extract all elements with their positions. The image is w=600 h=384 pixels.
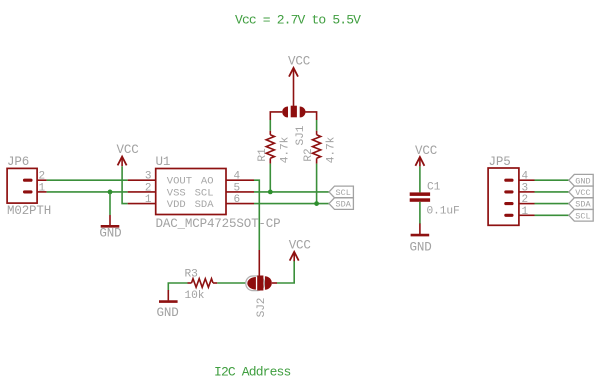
net label SDA (JP5) — [569, 198, 593, 210]
svg-text:VCC: VCC — [288, 55, 310, 69]
svg-text:SCL: SCL — [575, 211, 590, 221]
svg-text:3: 3 — [145, 171, 152, 183]
wire JP5 pin4 to GND flag — [535, 179, 569, 181]
resistor R3 10k — [185, 269, 218, 303]
svg-text:5: 5 — [234, 182, 241, 194]
svg-text:GND: GND — [99, 227, 121, 241]
svg-text:4.7k: 4.7k — [326, 136, 338, 163]
wire R2 bottom to SDA net — [316, 164, 318, 204]
svg-text:2: 2 — [145, 182, 152, 194]
wire U1 pin6 to SDA flag — [254, 203, 329, 205]
svg-text:GND: GND — [410, 241, 432, 255]
wire SJ1 left to R1 — [270, 112, 282, 135]
junction R2/SDA — [314, 201, 319, 206]
svg-text:VCC: VCC — [117, 143, 139, 157]
net label VCC (JP5) — [569, 186, 593, 198]
svg-text:JP6: JP6 — [7, 155, 29, 169]
svg-text:Vcc = 2.7V to 5.5V: Vcc = 2.7V to 5.5V — [235, 13, 361, 28]
wire VCC to C1 top — [419, 166, 421, 192]
ground symbol GND (R3) — [157, 302, 179, 320]
svg-text:10k: 10k — [185, 290, 205, 302]
net label SCL (JP5) — [569, 210, 593, 222]
svg-text:R2: R2 — [303, 148, 315, 161]
svg-text:AO: AO — [201, 176, 214, 188]
solder jumper SJ2 — [246, 276, 272, 318]
svg-text:4: 4 — [234, 171, 241, 183]
svg-text:1: 1 — [522, 206, 529, 218]
supply symbol VCC (above C1) — [415, 144, 437, 166]
capacitor C1 0.1uF — [410, 182, 460, 218]
wire JP6 pin2 to U1 pin3 — [47, 179, 128, 181]
svg-text:VCC: VCC — [289, 239, 311, 253]
ground symbol GND (C1) — [410, 235, 432, 254]
wire SJ1 right to R2 — [306, 112, 317, 135]
wire junction down to ground — [109, 192, 111, 215]
svg-text:VSS: VSS — [167, 187, 186, 199]
wire U1 pin5 to SCL flag — [254, 191, 329, 193]
svg-text:0.1uF: 0.1uF — [427, 206, 460, 218]
solder jumper SJ1 — [282, 106, 307, 146]
supply symbol VCC (right of SJ2) — [289, 239, 311, 262]
svg-text:R3: R3 — [185, 269, 198, 281]
svg-text:I2C Address: I2C Address — [214, 365, 291, 380]
svg-text:2: 2 — [39, 171, 46, 183]
svg-text:VCC: VCC — [415, 144, 437, 158]
wire U1 pin4 (A0) down to SJ2 — [254, 180, 259, 275]
svg-text:6: 6 — [234, 194, 241, 206]
net label SCL — [329, 186, 353, 198]
svg-text:SDA: SDA — [195, 199, 215, 211]
svg-text:GND: GND — [157, 306, 179, 320]
wire JP5 pin2 to SDA flag — [535, 203, 569, 205]
wire C1 bottom to GND — [419, 202, 421, 224]
svg-text:C1: C1 — [427, 182, 441, 194]
net label SDA — [329, 198, 353, 210]
connector JP6 — [7, 155, 51, 218]
svg-text:VDD: VDD — [167, 199, 186, 211]
svg-text:SDA: SDA — [336, 200, 352, 210]
wire VCC down and into U1 VDD — [122, 166, 128, 203]
svg-text:3: 3 — [522, 182, 529, 194]
wire R3 to SJ2 left pad — [217, 282, 247, 284]
resistor R1 4.7k — [257, 135, 292, 164]
wire SJ2 right pad to VCC — [272, 260, 294, 283]
svg-text:2: 2 — [522, 194, 529, 206]
svg-text:4.7k: 4.7k — [280, 136, 292, 163]
svg-text:DAC_MCP4725SOT-CP: DAC_MCP4725SOT-CP — [156, 217, 281, 231]
svg-text:SDA: SDA — [575, 200, 591, 210]
svg-text:SJ2: SJ2 — [256, 298, 268, 318]
junction R1/SCL — [268, 190, 273, 195]
svg-text:JP5: JP5 — [489, 155, 511, 169]
supply symbol VCC (above SJ1) — [288, 55, 310, 107]
wire GND up and right to R3 — [168, 283, 187, 291]
svg-text:4: 4 — [522, 171, 529, 183]
svg-text:VOUT: VOUT — [167, 176, 192, 188]
svg-text:1: 1 — [145, 194, 152, 206]
svg-text:SJ1: SJ1 — [295, 125, 307, 145]
wire JP5 pin3 to VCC flag — [535, 191, 569, 193]
svg-text:GND: GND — [575, 176, 590, 186]
svg-text:VCC: VCC — [575, 188, 590, 198]
connector JP5 — [488, 155, 534, 225]
svg-text:1: 1 — [39, 182, 46, 194]
wire R1 bottom to SCL net — [269, 164, 271, 192]
junction on GND net — [108, 190, 113, 195]
svg-text:U1: U1 — [156, 155, 171, 169]
ground symbol GND (JP6) — [99, 215, 121, 241]
svg-text:R1: R1 — [257, 148, 269, 162]
wire JP5 pin1 to SCL flag — [535, 214, 569, 216]
svg-text:SCL: SCL — [195, 187, 214, 199]
supply symbol VCC (left, feeds U1 VDD) — [117, 143, 139, 166]
resistor R2 4.7k — [303, 135, 337, 164]
wire JP6 pin1 to U1 pin2 — [47, 191, 128, 193]
op-amp U1 DAC_MCP4725SOT-CP — [128, 155, 281, 231]
svg-text:M02PTH: M02PTH — [7, 204, 51, 218]
svg-text:SCL: SCL — [336, 188, 351, 198]
net label GND (JP5) — [569, 174, 593, 186]
